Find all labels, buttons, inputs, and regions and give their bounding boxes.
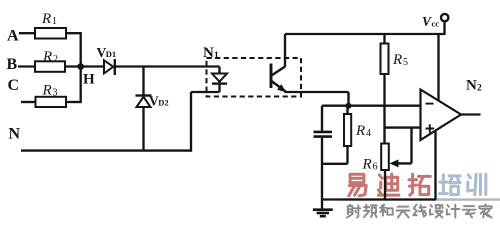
capacitor C <box>314 132 333 137</box>
wire R1 to bus <box>66 32 81 34</box>
wire R6 wiper arm <box>397 128 412 164</box>
svg-text:5: 5 <box>403 57 408 68</box>
wire input C lead <box>21 101 36 103</box>
svg-text:4: 4 <box>366 128 371 139</box>
svg-text:B: B <box>7 56 18 73</box>
wire input B line to VD1 <box>18 65 104 67</box>
svg-text:R: R <box>41 11 51 27</box>
svg-text:D1: D1 <box>106 49 116 59</box>
watermark grey underline band <box>342 198 500 200</box>
wire R3 to bus <box>66 101 81 103</box>
svg-text:R: R <box>42 82 52 98</box>
wire emitter to junction <box>285 92 349 106</box>
svg-text:R: R <box>392 52 402 68</box>
svg-text:R: R <box>355 123 365 139</box>
diode VD1 <box>104 59 115 75</box>
wire inverting input line <box>322 105 421 107</box>
svg-text:R: R <box>42 49 52 65</box>
resistor R6 potentiometer <box>381 144 389 171</box>
wire R6 bottom lead <box>384 170 386 200</box>
wire noninverting input line <box>385 126 421 128</box>
svg-text:C: C <box>8 77 20 94</box>
svg-text:D2: D2 <box>158 98 168 108</box>
optocoupler phototransistor <box>271 64 286 93</box>
svg-text:A: A <box>7 28 19 45</box>
svg-text:V: V <box>422 14 432 29</box>
optocoupler LED <box>212 67 227 93</box>
wire capacitor bottom lead to ground <box>321 138 323 209</box>
wire N line <box>21 149 191 151</box>
svg-text:1: 1 <box>52 16 57 27</box>
wire collector riser <box>284 34 286 67</box>
svg-text:N: N <box>9 126 21 143</box>
wire top Vcc rail <box>285 33 446 35</box>
op-amp plus sign <box>426 124 435 133</box>
wire R4 bottom lead <box>346 146 348 164</box>
wire VD2 branch vertical <box>142 67 144 96</box>
optocoupler N1 dashed box <box>207 58 302 97</box>
op-amp N2 <box>421 90 462 141</box>
watermark big red text 易迪拓 <box>349 174 431 196</box>
wire VD1 to optocoupler LED <box>115 65 220 67</box>
watermark grey text 射频和天线设计专家 <box>347 204 492 217</box>
wire vertical bus joining R1 R2 R3 <box>80 32 82 103</box>
svg-text:cc: cc <box>432 18 440 28</box>
ground symbol <box>313 210 333 217</box>
ground rail <box>322 198 436 200</box>
svg-text:2: 2 <box>53 54 58 65</box>
wire R5 R6 vertical chain <box>383 34 385 144</box>
wire Vcc terminal stub <box>443 21 445 34</box>
svg-text:3: 3 <box>53 87 58 98</box>
svg-text:H: H <box>83 72 95 88</box>
svg-text:R: R <box>362 156 372 172</box>
wire riser from N line to LED cathode <box>191 92 220 152</box>
svg-text:N: N <box>466 78 477 94</box>
Vcc terminal circle <box>441 14 448 21</box>
resistor R1 <box>35 28 66 39</box>
watermark blue text 培训 <box>439 174 485 194</box>
svg-text:6: 6 <box>373 162 378 173</box>
wire capacitor top lead <box>321 106 323 131</box>
wire input A lead <box>19 32 35 34</box>
node junction dot (emitter, R4, C, inverting input) <box>346 103 352 109</box>
wire C-R4 bottom tie <box>322 163 348 165</box>
resistor R2 <box>35 61 65 72</box>
resistor R5 <box>381 44 389 75</box>
node H junction dot <box>77 63 84 70</box>
resistor R4 <box>344 114 351 146</box>
wire op-amp output <box>461 113 481 115</box>
svg-text:N: N <box>203 45 214 61</box>
R6 wiper arrowhead <box>390 159 399 167</box>
op-amp minus sign <box>426 103 434 105</box>
wire R4 top lead <box>346 106 348 114</box>
svg-text:1: 1 <box>214 51 219 61</box>
svg-text:2: 2 <box>477 84 482 94</box>
diode VD2 <box>136 96 152 151</box>
wire op-amp negative supply to ground rail <box>434 130 436 199</box>
resistor R3 <box>36 97 67 107</box>
wire op-amp positive supply from rail <box>437 34 439 101</box>
